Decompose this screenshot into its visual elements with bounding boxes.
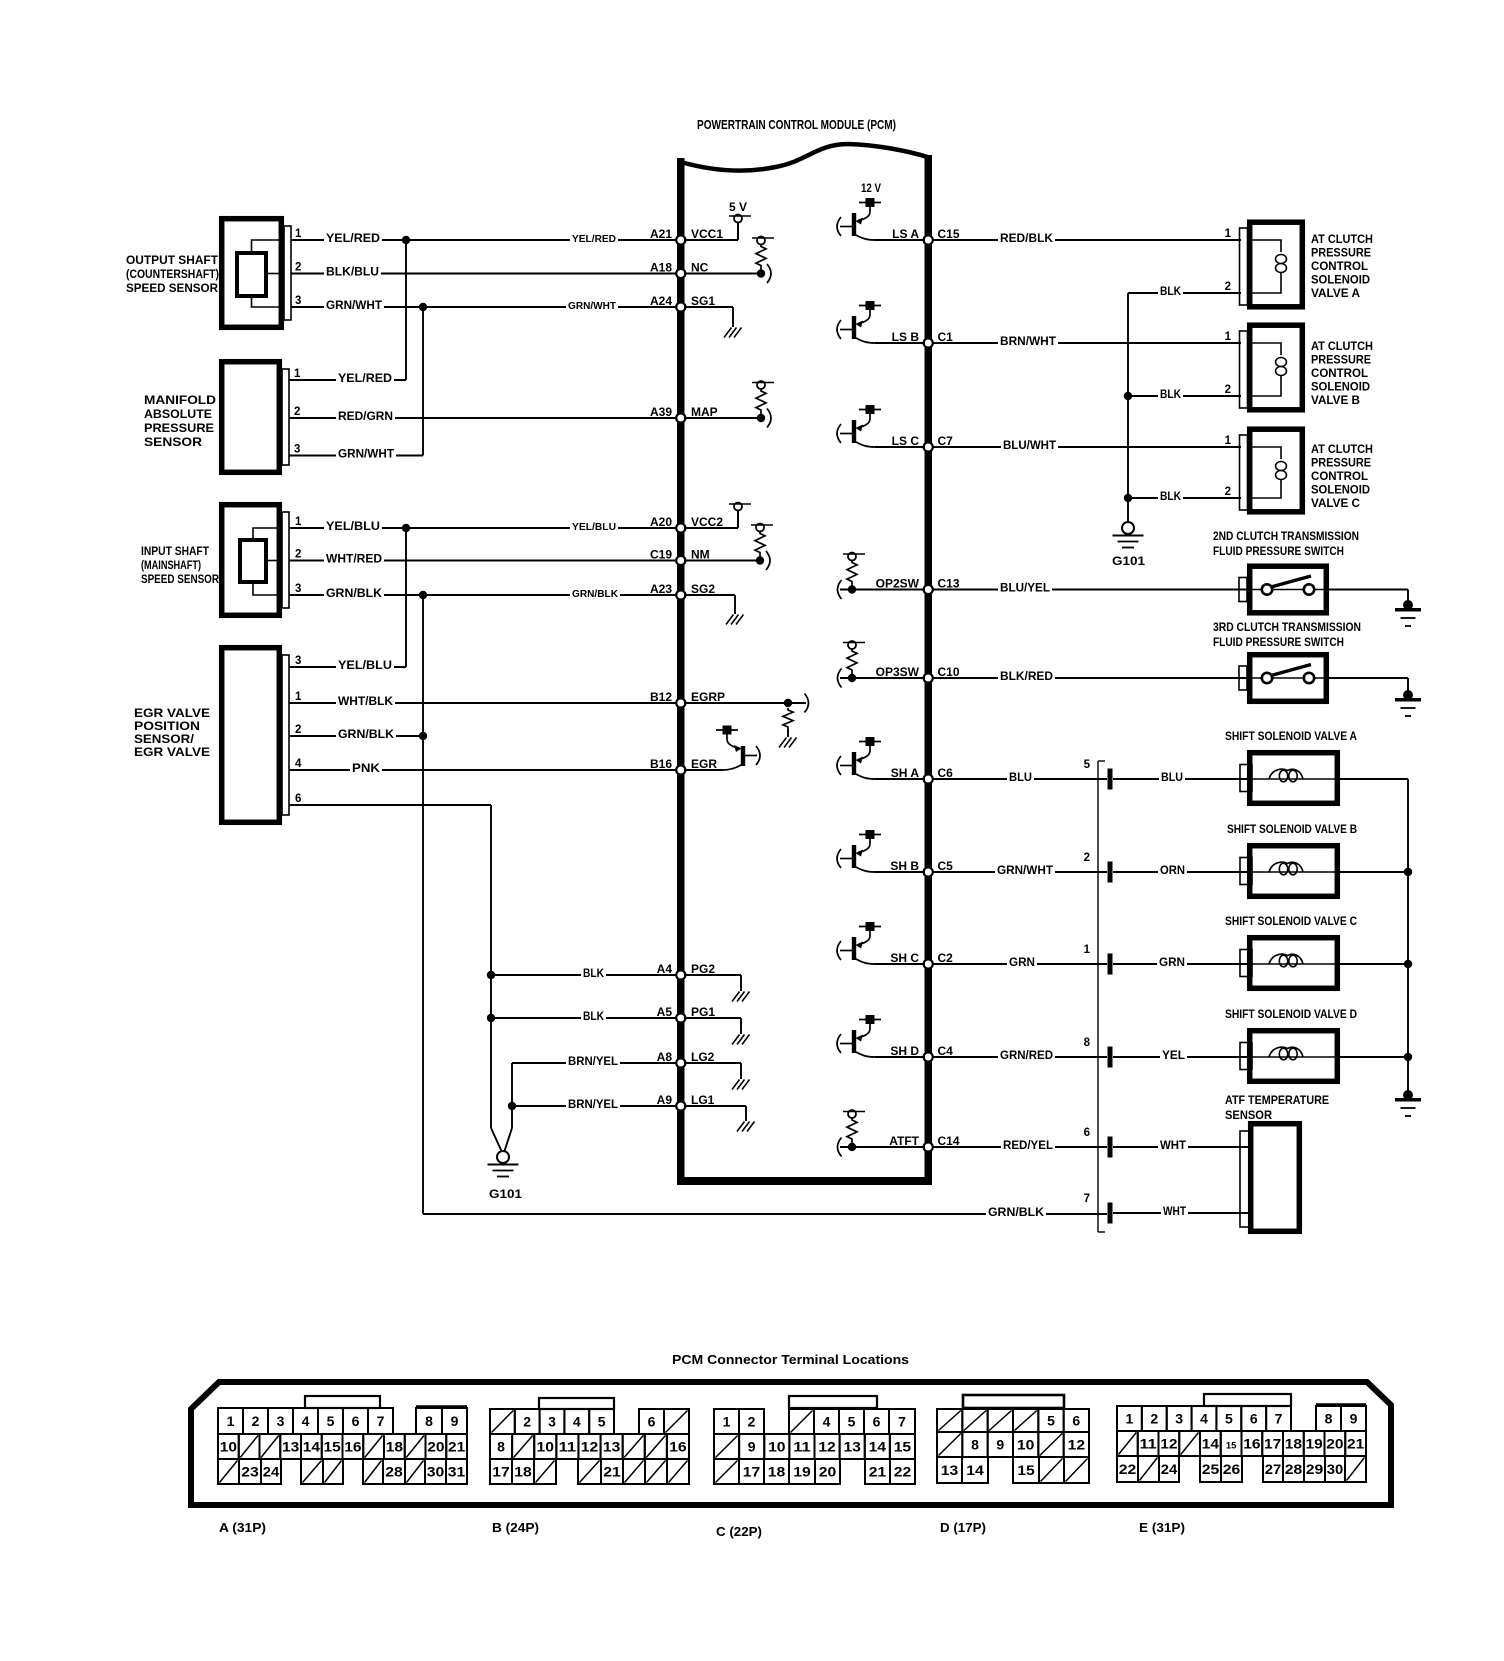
svg-text:8: 8 [1084,1037,1091,1049]
svg-text:ATFT: ATFT [889,1134,919,1148]
in-line connector terminal 7 [1084,1193,1113,1224]
svg-text:POSITION: POSITION [134,721,200,733]
pin C7 (LS C) on PCM right wall [892,434,954,452]
connector A (31P) terminal grid [218,1407,467,1484]
junction node BLK at A5 row [487,1014,495,1022]
label: EGR VALVE POSITION SENSOR/ EGR VALVE [134,708,210,759]
label: 3RD CLUTCH TRANSMISSION FLUID PRESSURE SWITCH [1213,622,1361,649]
svg-text:A20: A20 [650,515,672,529]
svg-text:NM: NM [691,548,710,562]
pin 2 of MAP sensor [289,406,338,418]
junction node BLK at solenoid C [1124,494,1132,502]
wire RED/GRN (MAP pin2 to A39) [336,410,677,423]
svg-text:C4: C4 [938,1044,954,1058]
pin 3 of MAP sensor [289,444,338,456]
wire BLK vertical to ground G101 (right) [1127,293,1129,522]
wire from shift solenoid C to ground rail [1340,960,1412,968]
chassis ground (shift solenoids) [1395,1090,1421,1116]
svg-text:SPEED SENSOR: SPEED SENSOR [141,574,220,586]
wire BRN/YEL (to A9 LG1) [512,1098,677,1111]
pin A24 (SG1) on PCM left wall [650,294,715,312]
ground PG2 [684,975,750,1002]
svg-text:A (31P): A (31P) [219,1520,266,1535]
svg-text:15: 15 [894,1439,912,1455]
svg-text:A8: A8 [657,1050,673,1064]
svg-text:8: 8 [497,1439,505,1455]
svg-text:E (31P): E (31P) [1139,1520,1185,1535]
svg-text:SPEED SENSOR: SPEED SENSOR [126,283,219,295]
transistor SH A [837,737,925,779]
sensor: manifold absolute pressure sensor [222,362,289,473]
label: ATF TEMPERATURE SENSOR [1225,1095,1329,1122]
svg-text:1: 1 [1225,435,1232,447]
svg-text:AT CLUTCH: AT CLUTCH [1311,444,1373,456]
svg-text:10: 10 [220,1439,237,1455]
svg-text:C15: C15 [938,227,960,241]
svg-text:31: 31 [448,1464,466,1480]
wire GRN/BLK link (EGR pin2 to vertical) [336,728,423,741]
svg-text:OP3SW: OP3SW [876,665,920,679]
svg-text:30: 30 [1327,1461,1344,1477]
junction node GRN/BLK at EGR pin2 [419,732,427,740]
wire from 2nd clutch switch to ground [1329,590,1408,603]
svg-text:17: 17 [492,1464,510,1480]
svg-text:3: 3 [548,1414,556,1430]
svg-text:18: 18 [1285,1436,1302,1452]
svg-text:12 V: 12 V [861,181,881,195]
svg-text:14: 14 [966,1462,984,1478]
svg-text:SH C: SH C [890,951,919,965]
svg-text:SH A: SH A [891,766,920,780]
wire GRN/BLK vertical (A23 junction down to bottom run) [422,595,424,1214]
label: C (22P) [716,1524,762,1539]
wire GRN/WHT link (junction to MAP pin3) [336,307,423,461]
svg-text:RED/YEL: RED/YEL [1003,1140,1053,1152]
pin C5 (SH B) on PCM right wall [890,859,953,877]
svg-text:SH B: SH B [890,859,919,873]
svg-text:2ND CLUTCH TRANSMISSION: 2ND CLUTCH TRANSMISSION [1213,531,1359,543]
svg-text:C7: C7 [938,434,954,448]
svg-text:18: 18 [386,1439,403,1455]
svg-text:SENSOR: SENSOR [1225,1110,1273,1122]
connector B (24P) terminal grid [490,1409,689,1484]
svg-text:14: 14 [303,1439,320,1455]
wire YEL/BLU link (junction down to EGR pin3) [336,528,406,672]
svg-text:4: 4 [1200,1411,1208,1427]
svg-text:1: 1 [295,691,302,703]
svg-text:PRESSURE: PRESSURE [1311,458,1371,470]
svg-text:EGRP: EGRP [691,690,725,704]
transistor SH B [837,830,925,872]
wire YEL/RED link (junction to MAP pin1) [336,240,406,385]
pin 1 of input shaft sensor [289,516,326,528]
svg-text:FLUID PRESSURE SWITCH: FLUID PRESSURE SWITCH [1213,637,1344,649]
svg-text:YEL/BLU: YEL/BLU [572,522,616,533]
svg-text:4: 4 [295,758,302,770]
pull-up resistor OP2SW input [838,553,926,600]
svg-text:FLUID PRESSURE SWITCH: FLUID PRESSURE SWITCH [1213,546,1344,558]
svg-text:C6: C6 [938,766,954,780]
svg-text:5: 5 [1225,1411,1233,1427]
svg-text:A21: A21 [650,227,672,241]
svg-text:INPUT SHAFT: INPUT SHAFT [141,546,209,558]
svg-text:2: 2 [1225,486,1231,498]
label: MANIFOLD ABSOLUTE PRESSURE SENSOR [144,395,216,449]
svg-text:21: 21 [603,1464,621,1480]
svg-text:SOLENOID: SOLENOID [1311,485,1370,497]
svg-text:GRN/WHT: GRN/WHT [326,300,382,312]
svg-text:2: 2 [295,724,301,736]
wire BLK vertical down to ground G101 [491,975,502,1151]
svg-text:2: 2 [295,549,301,561]
transistor LS A with 12V supply [837,181,925,240]
ground G101 (right) [1112,522,1145,568]
pull-up resistor at NM pin C19 [684,524,773,571]
svg-text:3: 3 [277,1413,285,1429]
svg-text:SENSOR: SENSOR [144,437,203,449]
svg-text:28: 28 [385,1464,403,1480]
svg-text:13: 13 [282,1439,299,1455]
svg-text:AT CLUTCH: AT CLUTCH [1311,234,1373,246]
connector D (17P) terminal grid [937,1409,1089,1483]
svg-text:YEL/BLU: YEL/BLU [326,521,380,533]
in-line connector terminal 6 [1084,1127,1113,1158]
pin C6 (SH A) on PCM right wall [891,766,953,784]
svg-text:2: 2 [748,1414,756,1430]
pull-up resistor ATFT input [838,1110,926,1157]
wire BLK (AT clutch solenoid A pin2) [1128,285,1241,298]
svg-text:14: 14 [869,1439,887,1455]
svg-text:C1: C1 [938,330,954,344]
wire RED/BLK (C15 to AT clutch solenoid A pin1) [932,232,1241,245]
label: AT CLUTCH PRESSURE CONTROL SOLENOID VALVE A [1311,234,1373,300]
svg-text:28: 28 [1285,1461,1303,1477]
svg-text:YEL/RED: YEL/RED [338,373,392,385]
svg-text:BLK: BLK [583,968,605,980]
svg-text:BRN/YEL: BRN/YEL [568,1099,618,1111]
svg-text:5: 5 [598,1414,606,1430]
svg-text:BLK/RED: BLK/RED [1000,671,1053,683]
svg-text:LS A: LS A [892,227,919,241]
label: OUTPUT SHAFT (COUNTERSHAFT) SPEED SENSOR [126,255,219,295]
svg-text:6: 6 [1072,1413,1080,1429]
in-line connector terminal 2 [1084,852,1113,883]
svg-text:30: 30 [427,1464,445,1480]
svg-text:GRN/WHT: GRN/WHT [997,865,1053,877]
svg-text:6: 6 [1250,1411,1258,1427]
svg-text:SHIFT SOLENOID VALVE C: SHIFT SOLENOID VALVE C [1225,916,1357,928]
junction node BRN/YEL [508,1102,516,1110]
pull-up resistor at NC pin A18 [684,237,774,284]
svg-text:3: 3 [295,583,301,595]
pin 3 of output shaft sensor [291,295,326,307]
wire BLK (junction to A4 PG2) [491,967,677,980]
pin 4 of EGR valve [289,758,352,770]
sensor: EGR valve position sensor / EGR valve [222,648,289,823]
svg-text:20: 20 [1326,1436,1343,1452]
svg-text:SOLENOID: SOLENOID [1311,275,1370,287]
svg-text:26: 26 [1223,1461,1241,1477]
in-line connector terminal 8 [1084,1037,1113,1068]
pin A20 (VCC2) on PCM left wall [650,515,723,533]
svg-text:NC: NC [691,261,709,275]
wire from shift solenoid B to ground rail [1340,868,1412,876]
label: B (24P) [492,1520,539,1535]
svg-text:22: 22 [1119,1461,1137,1477]
svg-text:GRN: GRN [1009,957,1035,969]
svg-text:5 V: 5 V [729,200,747,214]
svg-text:18: 18 [768,1464,786,1480]
svg-text:PRESSURE: PRESSURE [1311,355,1371,367]
svg-text:C10: C10 [938,665,960,679]
label: SHIFT SOLENOID VALVE C [1225,916,1357,928]
svg-text:VALVE C: VALVE C [1311,498,1360,510]
svg-text:SHIFT SOLENOID VALVE B: SHIFT SOLENOID VALVE B [1227,824,1357,836]
svg-text:7: 7 [1084,1193,1090,1205]
svg-text:OUTPUT SHAFT: OUTPUT SHAFT [126,255,218,267]
svg-text:PG2: PG2 [691,962,715,976]
wire BRN/YEL down to ground G101 [505,1106,513,1151]
5V supply at VCC2 [684,503,751,529]
svg-text:12: 12 [581,1439,599,1455]
svg-text:2: 2 [1150,1411,1158,1427]
switch: 3rd clutch transmission fluid pressure switch [932,655,1329,702]
AT clutch pressure control solenoid valve C [1225,429,1303,512]
sensor: output shaft (countershaft) speed sensor [222,219,291,328]
svg-text:CONTROL: CONTROL [1311,368,1368,380]
svg-text:AT CLUTCH: AT CLUTCH [1311,341,1373,353]
svg-text:SH D: SH D [890,1044,919,1058]
wire WHT (connector to ATF sensor pin 6) [1113,1139,1248,1152]
pull-up resistor OP3SW input [838,641,926,688]
pin A21 (VCC1) on PCM left wall [650,227,723,245]
svg-text:CONTROL: CONTROL [1311,471,1368,483]
svg-text:C2: C2 [938,951,954,965]
pin 1 of MAP sensor [289,368,338,380]
wire BLU/WHT (C7 to AT clutch solenoid C pin1) [932,439,1241,452]
svg-text:12: 12 [818,1439,836,1455]
svg-text:B (24P): B (24P) [492,1520,539,1535]
wire BLK/BLU (output sensor pin2 to A18) [324,266,677,279]
svg-text:6: 6 [352,1413,360,1429]
svg-text:PG1: PG1 [691,1005,715,1019]
svg-text:16: 16 [669,1439,687,1455]
wire from 3rd clutch switch to ground [1329,678,1408,692]
shift solenoid valve C [1240,938,1340,989]
transistor LS B [837,301,925,343]
wire RED/YEL (C14 to in-line connector 6) [932,1139,1107,1152]
svg-text:20: 20 [427,1439,444,1455]
wire GRN/BLK (bottom run to in-line connector 7) [423,1206,1107,1219]
svg-text:GRN/WHT: GRN/WHT [338,449,394,461]
label: SHIFT SOLENOID VALVE B [1227,824,1357,836]
svg-text:8: 8 [1325,1411,1333,1427]
svg-text:1: 1 [294,368,301,380]
svg-text:15: 15 [1017,1462,1035,1478]
ground SG2 [684,595,744,625]
svg-text:GRN/BLK: GRN/BLK [338,729,395,741]
svg-text:RED/GRN: RED/GRN [338,411,393,423]
svg-text:2: 2 [295,262,301,274]
svg-text:YEL: YEL [1162,1050,1185,1062]
svg-text:16: 16 [1243,1436,1260,1452]
svg-text:5: 5 [1047,1413,1055,1429]
svg-text:GRN/RED: GRN/RED [1000,1050,1053,1062]
label: SHIFT SOLENOID VALVE D [1225,1009,1357,1021]
svg-text:2: 2 [1225,384,1231,396]
svg-text:B12: B12 [650,690,672,704]
svg-text:G101: G101 [1112,554,1145,568]
svg-text:17: 17 [1264,1436,1281,1452]
pin C1 (LS B) on PCM right wall [892,330,954,348]
pin A4 (PG2) on PCM left wall [657,962,716,980]
EGRP input: wire, junction, resistor to ground [684,694,809,748]
svg-text:2: 2 [523,1414,531,1430]
label: A (31P) [219,1520,266,1535]
svg-text:8: 8 [425,1413,433,1429]
svg-text:C5: C5 [938,859,954,873]
sensor: ATF temperature sensor [1240,1124,1299,1232]
wire from EGR pin6 down to BLK junction [490,805,492,975]
svg-text:2: 2 [294,406,300,418]
svg-text:(MAINSHAFT): (MAINSHAFT) [141,560,201,572]
pin 1 of EGR valve [289,691,338,703]
svg-text:BLU: BLU [1161,772,1183,784]
svg-text:14: 14 [1202,1436,1219,1452]
svg-text:SG2: SG2 [691,582,715,596]
svg-text:ORN: ORN [1160,865,1185,877]
svg-text:2: 2 [252,1413,260,1429]
shift solenoid valve D [1240,1031,1340,1082]
pin C4 (SH D) on PCM right wall [890,1044,953,1062]
pin A23 (SG2) on PCM left wall [650,582,715,600]
svg-text:POWERTRAIN CONTROL MODULE (PCM: POWERTRAIN CONTROL MODULE (PCM) [697,117,896,132]
AT clutch pressure control solenoid valve A [1225,222,1303,307]
sensor: input shaft (mainshaft) speed sensor [222,505,289,616]
svg-text:11: 11 [793,1439,811,1455]
svg-text:PCM Connector Terminal Locatio: PCM Connector Terminal Locations [672,1352,909,1367]
wire PNK (EGR pin4 to B16) [350,762,677,775]
wire GRN/WHT (C5 to in-line connector 2) [932,864,1107,877]
svg-text:A18: A18 [650,261,672,275]
svg-text:A4: A4 [657,962,673,976]
wire GRN/WHT (output sensor pin3 to A24) [324,299,677,312]
svg-text:LS B: LS B [892,330,920,344]
svg-text:13: 13 [941,1462,959,1478]
svg-text:BLK: BLK [1160,286,1182,298]
svg-text:WHT: WHT [1160,1140,1186,1152]
svg-text:SENSOR/: SENSOR/ [134,734,195,746]
svg-text:3: 3 [295,295,301,307]
pin C10 (OP3SW) on PCM right wall [876,665,960,683]
svg-text:VALVE A: VALVE A [1311,288,1360,300]
svg-text:6: 6 [873,1414,881,1430]
svg-text:3RD CLUTCH TRANSMISSION: 3RD CLUTCH TRANSMISSION [1213,622,1361,634]
wire WHT (connector to ATF sensor pin 7) [1113,1205,1248,1218]
svg-text:3: 3 [294,444,300,456]
svg-text:5: 5 [327,1413,335,1429]
svg-text:VALVE B: VALVE B [1311,395,1360,407]
5V supply at VCC1 [684,200,751,240]
svg-text:SG1: SG1 [691,294,715,308]
svg-text:VCC2: VCC2 [691,515,723,529]
svg-text:13: 13 [843,1439,861,1455]
transistor SH C [837,922,925,964]
ground rail for shift solenoids [1407,779,1409,1092]
shift solenoid valve B [1240,846,1340,897]
pin B12 (EGRP) on PCM left wall [650,690,725,708]
wire GRN/BLK (input sensor pin3 to A23) [324,587,677,600]
svg-text:BLK/BLU: BLK/BLU [326,267,379,279]
label: AT CLUTCH PRESSURE CONTROL SOLENOID VALVE C [1311,444,1373,510]
svg-text:A5: A5 [657,1005,673,1019]
pin A39 (MAP) on PCM left wall [650,405,718,423]
svg-text:GRN/BLK: GRN/BLK [988,1207,1045,1219]
ground LG2 [684,1063,750,1090]
svg-text:1: 1 [1084,944,1091,956]
wire BLU (connector to shift solenoid A) [1113,771,1247,784]
ground PG1 [684,1018,750,1045]
svg-text:1: 1 [295,228,302,240]
svg-text:11: 11 [1140,1436,1157,1452]
svg-text:1: 1 [227,1413,235,1429]
svg-text:1: 1 [295,516,302,528]
connector B key bracket [539,1398,614,1409]
pin A18 (NC) on PCM left wall [650,261,709,279]
svg-text:BRN/YEL: BRN/YEL [568,1056,618,1068]
svg-text:10: 10 [768,1439,786,1455]
transistor SH D [837,1015,925,1057]
pin 2 of EGR valve [289,724,338,736]
pin 3 of input shaft sensor [289,583,326,595]
svg-text:6: 6 [648,1414,656,1430]
transistor EGR driver (pin B16) [684,726,760,771]
connector C (22P) terminal grid [714,1409,915,1484]
svg-text:4: 4 [302,1413,310,1429]
svg-text:15: 15 [324,1439,341,1455]
pin C14 (ATFT) on PCM right wall [889,1134,960,1152]
svg-text:A24: A24 [650,294,672,308]
svg-text:MANIFOLD: MANIFOLD [144,395,216,407]
pin 2 of output shaft sensor [291,262,326,274]
wire BRN/YEL link (LG2 down to LG1 wire) [511,1063,513,1106]
svg-text:GRN/BLK: GRN/BLK [572,589,619,600]
svg-text:BLU/WHT: BLU/WHT [1003,440,1056,452]
in-line connector terminal 1 [1084,944,1113,975]
svg-text:7: 7 [898,1414,906,1430]
svg-text:VCC1: VCC1 [691,227,723,241]
svg-text:CONTROL: CONTROL [1311,261,1368,273]
svg-text:EGR VALVE: EGR VALVE [134,708,210,720]
label: 2ND CLUTCH TRANSMISSION FLUID PRESSURE SWITCH [1213,531,1359,558]
svg-text:WHT: WHT [1163,1206,1186,1218]
svg-text:OP2SW: OP2SW [876,577,920,591]
pin 2 of input shaft sensor [289,549,326,561]
svg-text:SOLENOID: SOLENOID [1311,382,1370,394]
svg-text:16: 16 [344,1439,361,1455]
svg-text:BRN/WHT: BRN/WHT [1000,336,1056,348]
svg-text:BLK: BLK [1160,389,1182,401]
svg-text:BLU/YEL: BLU/YEL [1000,583,1050,595]
svg-text:A23: A23 [650,582,672,596]
svg-text:LG1: LG1 [691,1093,715,1107]
svg-text:11: 11 [559,1439,577,1455]
svg-text:13: 13 [603,1439,621,1455]
svg-text:C19: C19 [650,548,672,562]
shift solenoid valve A [1240,753,1340,804]
svg-text:9: 9 [748,1439,756,1455]
svg-text:LS C: LS C [892,434,920,448]
